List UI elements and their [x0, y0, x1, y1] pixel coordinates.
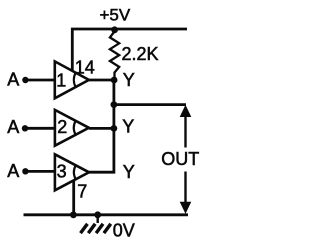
svg-text:14: 14: [75, 58, 95, 78]
svg-text:1: 1: [56, 71, 66, 91]
svg-text:2.2K: 2.2K: [122, 44, 159, 64]
svg-text:+5V: +5V: [100, 5, 131, 24]
svg-text:2: 2: [57, 117, 67, 137]
svg-text:A: A: [7, 117, 19, 137]
svg-text:A: A: [7, 161, 19, 181]
svg-text:Y: Y: [123, 162, 135, 182]
svg-text:7: 7: [77, 181, 87, 201]
svg-text:OUT: OUT: [161, 149, 199, 169]
svg-text:Y: Y: [123, 70, 135, 90]
svg-text:Y: Y: [122, 117, 134, 137]
svg-text:3: 3: [57, 162, 67, 182]
svg-text:0V: 0V: [113, 221, 135, 241]
svg-text:A: A: [7, 70, 19, 90]
